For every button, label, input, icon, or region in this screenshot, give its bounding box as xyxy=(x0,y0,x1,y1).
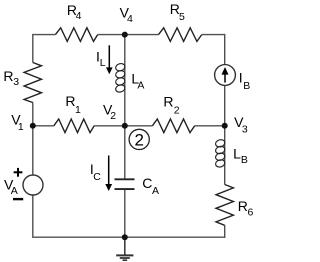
svg-text:B: B xyxy=(241,154,248,166)
svg-text:A: A xyxy=(152,185,159,197)
VA plus sign xyxy=(14,168,23,177)
label V3 xyxy=(234,114,248,136)
svg-text:2: 2 xyxy=(174,104,180,116)
ground xyxy=(116,237,133,260)
node V1 junction dot xyxy=(30,123,36,129)
svg-text:C: C xyxy=(93,171,101,183)
label LA xyxy=(131,70,144,91)
svg-text:6: 6 xyxy=(248,206,254,218)
svg-text:2: 2 xyxy=(134,130,143,149)
resistor R2 xyxy=(152,119,194,133)
inductor LA xyxy=(115,63,126,94)
ground node junction dot xyxy=(122,234,128,240)
svg-text:A: A xyxy=(11,185,18,197)
wire: right rail IB source to V3 xyxy=(224,85,226,125)
wire: top rail left segment xyxy=(33,34,56,36)
node 2 circled label xyxy=(129,129,149,149)
svg-text:3: 3 xyxy=(242,124,248,136)
label V2 xyxy=(103,101,116,122)
label R6 xyxy=(238,198,254,218)
wire: left rail middle (R3 to VA source) xyxy=(32,103,34,176)
svg-text:1: 1 xyxy=(75,104,81,116)
label R5 xyxy=(170,1,185,23)
resistor R6 xyxy=(216,185,233,226)
label IL xyxy=(96,49,106,69)
wire: right rail R6 to bottom corner xyxy=(224,225,226,238)
svg-text:L: L xyxy=(100,57,106,69)
svg-text:1: 1 xyxy=(18,121,24,133)
svg-text:R: R xyxy=(163,93,173,109)
VA minus sign xyxy=(13,198,23,200)
wire: middle row center segment (R1 to R2 through V2) xyxy=(94,125,152,127)
svg-text:R: R xyxy=(3,68,13,84)
label V4 xyxy=(120,4,133,25)
label R2 xyxy=(163,93,179,116)
label R4 xyxy=(67,2,82,22)
svg-text:4: 4 xyxy=(127,13,133,25)
wire: top rail right segment xyxy=(202,34,225,36)
svg-text:R: R xyxy=(65,93,75,109)
label R1 xyxy=(65,93,81,116)
resistor R1 xyxy=(54,119,94,133)
svg-text:A: A xyxy=(137,80,144,92)
wire: top rail middle segment through node V4 xyxy=(98,34,159,36)
label VA xyxy=(4,176,18,197)
label IC xyxy=(90,161,101,183)
wire: right rail V3 through LB coil to R6 xyxy=(224,126,226,185)
label R3 xyxy=(3,68,19,88)
wire: bottom rail xyxy=(33,236,225,238)
svg-text:2: 2 xyxy=(110,110,116,122)
svg-text:I: I xyxy=(239,70,243,86)
node V3 junction dot xyxy=(222,123,228,129)
node V2 junction dot xyxy=(122,123,128,129)
svg-text:5: 5 xyxy=(179,11,185,23)
wire: left rail upper (corner to R3) xyxy=(32,34,34,63)
label IB xyxy=(239,70,251,92)
resistor R4 xyxy=(55,28,97,42)
wire: left rail lower (VA source to bottom corner) xyxy=(32,195,34,238)
wire: middle rail V2 to capacitor top plate xyxy=(124,126,126,179)
svg-text:4: 4 xyxy=(76,10,82,22)
voltage source VA xyxy=(23,175,43,195)
svg-text:L: L xyxy=(233,145,241,161)
wire: middle rail upper (V4 through LA coil to V2) xyxy=(124,35,126,126)
wire: right rail upper (corner to IB source) xyxy=(224,34,226,65)
svg-text:3: 3 xyxy=(13,76,19,88)
svg-text:R: R xyxy=(238,198,248,214)
node V4 junction dot xyxy=(122,32,128,38)
resistor R3 xyxy=(24,63,41,103)
svg-text:B: B xyxy=(243,80,250,92)
wire: middle row left segment (V1 to R1) xyxy=(33,125,54,127)
current arrow IC xyxy=(105,156,112,192)
inductor LB xyxy=(215,139,226,168)
label CA xyxy=(142,175,159,197)
svg-text:C: C xyxy=(142,175,152,191)
IB arrow xyxy=(222,67,229,83)
label V1 xyxy=(11,111,24,133)
resistor R5 xyxy=(159,28,202,42)
label LB xyxy=(233,145,248,166)
capacitor CA xyxy=(115,179,135,189)
wire: middle rail capacitor bottom plate to ground node xyxy=(124,190,126,237)
current source IB xyxy=(215,65,236,86)
wire: middle row right segment (R2 to V3) xyxy=(195,125,225,127)
current arrow IL xyxy=(106,45,113,74)
